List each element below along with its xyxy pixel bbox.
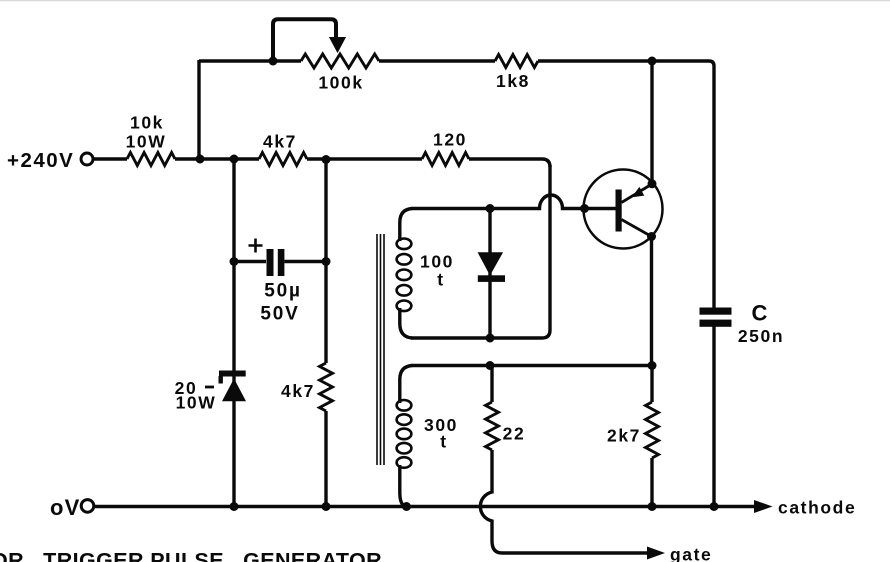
zener diode ZD1 20V 10W cathode bar <box>219 371 246 377</box>
svg-text:10W: 10W <box>126 132 167 152</box>
svg-text:100k: 100k <box>318 73 363 93</box>
svg-text:oV: oV <box>50 495 81 520</box>
wire left vertical x=234 (zener branch) <box>232 159 235 507</box>
wire top-left vertical from +240V node to top rail <box>197 60 200 159</box>
svg-text:4k7: 4k7 <box>281 381 315 401</box>
transistor Q1 collector lead <box>622 220 652 237</box>
diode D1 vertical wire <box>488 209 491 339</box>
gate output arrowhead <box>647 547 665 560</box>
svg-text:250n: 250n <box>738 326 784 346</box>
resistor R1 10k 10W <box>127 153 175 166</box>
transformer T1 primary top lead <box>400 209 412 242</box>
capacitor C1 50u electrolytic left wire <box>234 260 266 263</box>
potentiometer R2 wiper loop <box>273 19 336 61</box>
cathode output arrowhead <box>754 500 773 513</box>
diode D1 cathode bar <box>478 275 505 282</box>
wire +240V row <box>93 159 550 167</box>
resistor R7 22 <box>486 402 499 450</box>
transistor Q1 emitter arrowhead (PNP) <box>632 187 645 197</box>
svg-text:10k: 10k <box>130 113 164 133</box>
wire 22 lower lead with hop over cathode rail and gate run <box>480 450 650 553</box>
transistor Q1 body circle <box>584 170 663 249</box>
wire 120-resistor drop and tank bottom return <box>411 165 550 338</box>
label ZD1 dash <box>205 386 214 389</box>
wire emitter vertical to top rail <box>650 61 653 184</box>
svg-text:120: 120 <box>433 130 467 150</box>
wire base line from 100t winding to transistor with hop over vertical wire <box>411 195 616 209</box>
wire 300t top line to collector junction <box>411 364 652 367</box>
wire 2k7 upper lead <box>650 366 653 403</box>
wire right vertical x=326 (4k7 branch) lower <box>324 411 327 507</box>
terminal 0V circle <box>81 500 94 513</box>
capacitor C1 plate left <box>267 249 274 276</box>
resistor R5 120 <box>422 153 469 166</box>
svg-text:22: 22 <box>503 424 526 444</box>
scan artifact faint top edge line <box>0 0 890 1</box>
svg-text:1k8: 1k8 <box>496 71 530 91</box>
transformer T1 secondary top lead <box>400 366 412 404</box>
wire right vertical below capacitor C to cathode rail <box>712 327 715 507</box>
transformer T1 secondary winding 300t coils <box>397 400 412 468</box>
wire right vertical x=326 (4k7 branch) upper <box>324 159 327 363</box>
transformer T1 secondary bottom lead <box>400 465 406 507</box>
svg-text:10W: 10W <box>176 393 217 413</box>
resistor R4 4k7 (upper horizontal) <box>259 153 307 166</box>
transistor Q1 base bar <box>616 190 622 232</box>
svg-text:OR TRIGGER PULSE GENERATOR: OR TRIGGER PULSE GENERATOR <box>0 549 382 562</box>
transformer T1 core laminations <box>377 234 384 465</box>
potentiometer R2 wiper arrowhead <box>330 38 345 52</box>
transformer T1 primary bottom lead <box>400 308 412 338</box>
svg-text:+240V: +240V <box>7 149 74 172</box>
capacitor C1 polarity plus sign <box>249 239 263 253</box>
wire collector vertical down to 300t line <box>650 237 653 366</box>
wire 22 upper lead <box>490 366 493 403</box>
wire cathode rail <box>93 505 756 508</box>
transistor Q1 emitter lead <box>622 184 653 203</box>
svg-text:t: t <box>437 270 444 290</box>
zener diode ZD1 body <box>222 379 246 402</box>
wire top rail with right-side drop <box>199 61 714 308</box>
svg-text:4k7: 4k7 <box>263 132 297 152</box>
diode D1 body <box>479 253 502 274</box>
capacitor C2 250n plate bottom <box>700 320 732 327</box>
resistor R3 1k8 <box>495 55 538 68</box>
svg-text:2k7: 2k7 <box>607 426 641 446</box>
transformer T1 primary winding 100t coils <box>397 239 412 312</box>
svg-text:50V: 50V <box>260 304 299 325</box>
svg-text:50µ: 50µ <box>264 281 301 302</box>
capacitor C2 250n plate top <box>700 308 732 315</box>
svg-text:100: 100 <box>420 252 454 272</box>
potentiometer R2 100k element <box>301 54 379 68</box>
svg-text:gate: gate <box>670 545 712 562</box>
svg-text:C: C <box>752 301 768 326</box>
terminal +240V circle <box>81 153 93 165</box>
resistor R6 4k7 (vertical) <box>320 363 333 411</box>
svg-text:t: t <box>440 432 447 452</box>
wire 2k7 lower lead <box>650 458 653 507</box>
capacitor C1 50u electrolytic right wire <box>285 260 327 263</box>
svg-text:cathode: cathode <box>778 498 856 518</box>
resistor R8 2k7 <box>646 402 659 458</box>
junction dots (all wire nodes) <box>196 57 719 512</box>
capacitor C1 plate right <box>278 249 285 276</box>
